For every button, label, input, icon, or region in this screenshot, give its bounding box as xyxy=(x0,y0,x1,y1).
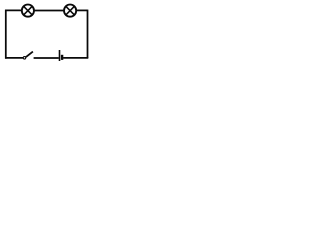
wire bottom-left segment xyxy=(5,57,23,59)
switch S1 (open) xyxy=(23,52,33,59)
lamp L2 xyxy=(64,5,76,17)
battery cell B1 xyxy=(60,50,63,61)
wire left vertical xyxy=(5,10,7,59)
wire top-right segment xyxy=(76,9,87,11)
wire top-middle segment xyxy=(34,10,64,12)
wire bottom-right segment xyxy=(63,57,88,59)
lamp L1 xyxy=(22,5,34,17)
wire right vertical xyxy=(87,10,89,58)
wire bottom-middle segment (switch to battery) xyxy=(34,57,59,59)
wire top-left segment xyxy=(5,9,22,11)
